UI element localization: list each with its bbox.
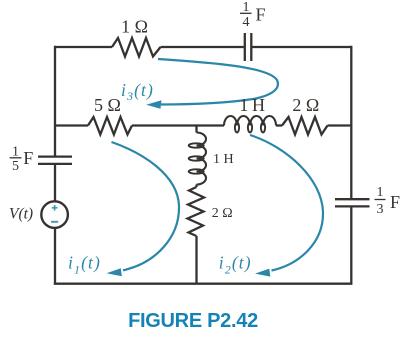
svg-text:FIGURE P2.42: FIGURE P2.42 [128,310,258,332]
wire: center branch top stub [195,126,197,133]
mesh current arrow i2 curve [250,135,323,271]
wire: left between cap and source [54,164,56,202]
resistor 5 Ω (middle left) [88,117,132,135]
svg-text:1 H: 1 H [213,152,234,167]
inductor 1 H (vertical) loops [189,143,204,147]
resistor 2 Ω (middle right) [282,117,328,135]
label 1/5 F fraction [12,145,19,175]
wire: bottom [54,283,353,285]
svg-text:F: F [256,5,266,25]
svg-text:2 Ω: 2 Ω [292,95,319,115]
wire: right upper [350,46,352,199]
wire: middle-left from node [55,124,88,126]
arrowhead i3 [146,100,161,109]
svg-text:1 Ω: 1 Ω [121,17,148,37]
mesh current arrow i1 curve [112,142,180,270]
svg-text:5 Ω: 5 Ω [94,95,121,115]
voltage source V(t) circle [41,201,68,228]
svg-text:5: 5 [12,159,19,174]
inductor 1 H (vertical) arcs [197,133,207,185]
label 1/3 F fraction [377,185,384,217]
svg-text:3: 3 [377,202,384,217]
source - symbol [51,221,58,223]
wire: between inductor and resistor [276,124,282,126]
mesh current arrow i3 curve [158,59,278,105]
capacitor 1/4 F plates [245,33,252,61]
wire: top-left segment [55,46,112,48]
resistor 1 Ω (top) [112,38,161,57]
wire: top-middle segment [161,46,244,48]
wire: top-right segment [251,46,351,48]
svg-text:F: F [23,148,33,168]
svg-text:1 H: 1 H [239,95,265,115]
arrowhead i2 [255,269,270,277]
svg-text:2 Ω: 2 Ω [212,206,233,221]
wire: left below source [54,228,56,284]
svg-text:F: F [390,192,400,212]
svg-text:4: 4 [243,15,250,30]
wire: left upper [54,46,56,156]
inductor 1 H (horizontal) arcs [224,116,276,126]
capacitor 1/5 F plates [38,157,72,164]
wire: right lower [350,206,352,283]
inductor 1 H (horizontal) loops [235,123,239,133]
arrowhead i1 [107,268,122,276]
capacitor 1/3 F plates [335,199,370,206]
svg-text:1: 1 [377,185,384,200]
wire: center branch between L and R [195,185,197,188]
wire: middle-right to right wire [328,124,352,126]
source + symbol [51,205,58,222]
svg-text:V(t): V(t) [9,206,33,223]
label 1/4 F fraction [243,0,250,30]
wire: middle segment to center node [132,124,224,126]
svg-text:i3(t): i3(t) [121,80,154,103]
resistor 2 Ω (vertical) [188,187,205,236]
wire: center branch bottom [195,236,197,284]
